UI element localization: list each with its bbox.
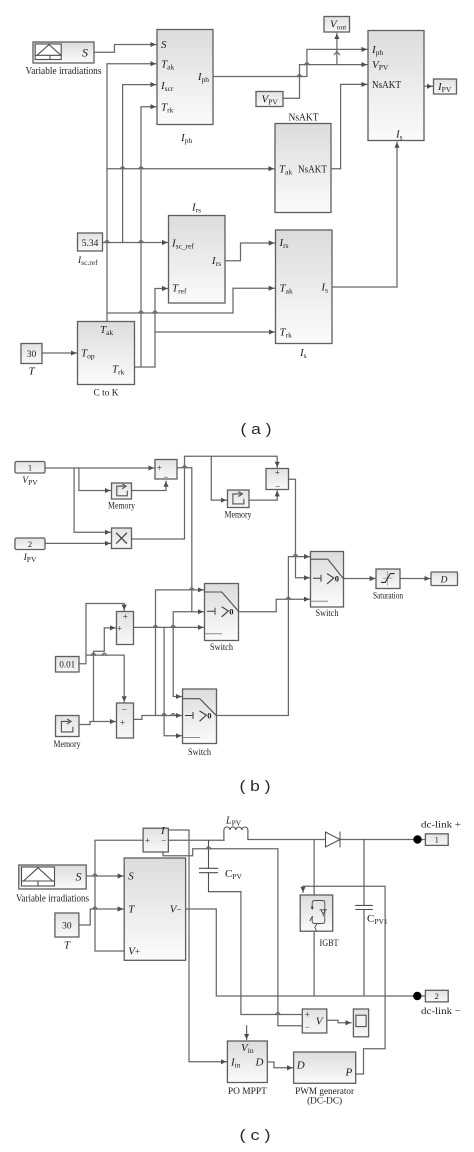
block switch1 (middle)	[205, 584, 239, 654]
wire T_ak branch to I_s block T_ak input	[107, 288, 274, 313]
wire sum2 output dP to switch3 control	[289, 479, 310, 578]
wire V- return and dc-link minus rail	[186, 909, 426, 996]
svg-text:5.34: 5.34	[82, 239, 99, 249]
block V_PV source	[256, 92, 283, 107]
wire I_ph output	[213, 49, 367, 76]
wire sum4 output to switch2 input2 and switch1 input1	[134, 588, 204, 720]
svg-text:Memory: Memory	[225, 511, 252, 521]
wire V+ to current sensor plus	[95, 840, 143, 951]
svg-text:−: −	[305, 1022, 310, 1032]
svg-text:T: T	[64, 940, 71, 952]
svg-text:1: 1	[28, 463, 32, 473]
wire switch1 output to switch3 input3	[239, 597, 310, 612]
wire branch V_PV to memory1	[79, 468, 111, 491]
svg-text:PWM generator: PWM generator	[295, 1087, 355, 1097]
block NsAKT subsystem	[275, 112, 331, 213]
wire 30 constant to T input	[79, 907, 123, 925]
capacitor C_PV	[200, 840, 243, 891]
svg-text:30: 30	[62, 922, 72, 932]
svg-text:C to K: C to K	[94, 389, 119, 399]
svg-text:S: S	[161, 39, 167, 51]
wire dc-link plus rail with L_PV	[168, 839, 425, 842]
svg-text:T: T	[128, 904, 135, 916]
svg-text:D: D	[296, 1060, 305, 1072]
wire IGBT collector to rail	[313, 840, 315, 896]
svg-text:PO MPPT: PO MPPT	[228, 1087, 267, 1097]
svg-text:Iph: Iph	[180, 132, 192, 145]
block PV array subsystem	[124, 858, 185, 960]
block current sensor sum I	[143, 825, 168, 852]
wire from inport 2 I_PV to multiply	[45, 542, 110, 544]
svg-text:Variable irradiations: Variable irradiations	[16, 894, 89, 905]
capacitor C_PV1	[356, 840, 388, 997]
block sum1	[155, 460, 177, 483]
svg-text:dc-link −: dc-link −	[421, 1007, 461, 1017]
wire 30 constant to T_op	[42, 352, 77, 354]
wire 0.01 to sum3 top and sum4 top	[79, 604, 124, 702]
svg-text:NsAKT: NsAKT	[298, 164, 327, 176]
block V_out display	[324, 17, 350, 33]
svg-text:0: 0	[229, 606, 233, 616]
svg-text:2: 2	[435, 991, 439, 1001]
svg-text:D: D	[440, 576, 448, 586]
inductor L_PV	[224, 816, 248, 841]
svg-text:+: +	[135, 947, 140, 957]
svg-text:−: −	[122, 705, 127, 715]
svg-text:−: −	[275, 481, 280, 491]
block PWM generator	[294, 1052, 356, 1107]
wire branch V_PV to multiply	[74, 468, 110, 532]
wire PO MPPT D output to PWM generator	[267, 1062, 292, 1068]
wire IGBT emitter to dc-link minus rail	[313, 931, 315, 996]
wire I_sc_ref from 5.34 constant to I_rs block	[103, 241, 168, 243]
node dot dc-link minus	[413, 992, 421, 1000]
svg-text:S: S	[82, 46, 88, 60]
svg-text:( b ): ( b )	[240, 778, 271, 795]
svg-text:Is: Is	[299, 347, 307, 360]
wire T_rk riser to I_ph T_rk input	[141, 107, 156, 367]
block C to K converter	[78, 322, 135, 399]
wire current sensor minus sense line to V-meter minus and V_in	[163, 847, 302, 1040]
wire multiply output P to sum2 top and memory2	[131, 456, 277, 539]
outport 2 dc-link minus	[421, 990, 461, 1017]
svg-text:P: P	[344, 1067, 352, 1079]
svg-text:IGBT: IGBT	[320, 939, 339, 949]
block switch3 (right)	[311, 552, 344, 620]
block Variable irradiations (c)	[16, 865, 89, 905]
svg-text:LPV: LPV	[225, 816, 242, 828]
wire PWM P output to IGBT gate	[303, 886, 385, 1074]
svg-text:D: D	[255, 1057, 264, 1069]
svg-text:0: 0	[335, 573, 339, 583]
wire T_ak branch to NsAKT block	[107, 167, 274, 169]
block IGBT	[300, 895, 338, 949]
svg-text:Variable irradiations: Variable irradiations	[26, 66, 102, 77]
wire riser to V_out	[334, 34, 339, 65]
block sum3	[117, 611, 134, 644]
wire S from Variable irradiations to PV block	[86, 874, 123, 876]
block I_ph subsystem	[157, 30, 213, 146]
block constant 5.34	[77, 233, 103, 267]
wire memory3 output to sum4 and sum3	[79, 628, 116, 725]
svg-text:Switch: Switch	[188, 748, 211, 758]
wire NsAKT output	[331, 84, 367, 168]
block constant 30 (c)	[55, 913, 79, 952]
block memory2	[225, 490, 252, 521]
svg-text:Switch: Switch	[316, 609, 339, 619]
svg-text:(DC-DC): (DC-DC)	[307, 1096, 342, 1107]
block V-meter sum	[302, 1009, 327, 1033]
svg-text:VPV: VPV	[22, 476, 38, 487]
block switch2 (bottom)	[183, 689, 217, 758]
block multiply	[112, 528, 132, 549]
svg-text:V−: V−	[170, 904, 182, 916]
wire sum3 output to switch1 input3 and switch2 input3	[134, 625, 204, 735]
wire current sensor I output to I_in	[168, 830, 226, 1062]
svg-text:0.01: 0.01	[59, 660, 75, 670]
svg-text:+: +	[120, 718, 125, 728]
svg-text:( a ): ( a )	[241, 421, 272, 438]
svg-text:Switch: Switch	[210, 643, 233, 653]
svg-text:+: +	[275, 467, 280, 477]
wire from inport 1 V_PV to sum1	[45, 467, 154, 469]
block I_s subsystem	[276, 230, 333, 360]
block outport D	[431, 572, 458, 586]
svg-text:S: S	[128, 871, 134, 883]
block memory3	[54, 716, 81, 751]
wire switch2 output to switch3 input1	[217, 554, 310, 715]
block inport 1	[15, 462, 45, 488]
svg-text:NsAKT: NsAKT	[289, 112, 319, 124]
svg-text:+: +	[117, 623, 122, 633]
block memory1	[108, 483, 135, 512]
node dot dc-link plus	[413, 835, 421, 843]
svg-text:−: −	[163, 472, 168, 482]
svg-text:Memory: Memory	[54, 740, 81, 750]
svg-text:+: +	[157, 463, 162, 473]
wire I_PV output	[424, 85, 433, 87]
block I_rs subsystem	[169, 202, 226, 304]
svg-text:NsAKT: NsAKT	[372, 79, 401, 91]
block PV current subsystem (right)	[368, 31, 424, 142]
svg-text:Memory: Memory	[108, 502, 135, 512]
wire T_rk from C to K output	[135, 366, 156, 368]
wire I_s output to PV-current block bottom	[332, 142, 397, 287]
svg-text:IPV: IPV	[23, 553, 37, 564]
svg-text:dc-link +: dc-link +	[421, 820, 461, 830]
wire memory2 output to sum2 bottom	[249, 491, 277, 500]
wire switch3 output to saturation	[344, 578, 376, 580]
wire V_PV output	[283, 63, 367, 99]
svg-text:Isc.ref: Isc.ref	[77, 256, 98, 267]
svg-text:+: +	[305, 1010, 310, 1020]
svg-text:1: 1	[435, 835, 439, 845]
svg-text:+: +	[123, 611, 128, 621]
outport 1 dc-link plus	[421, 820, 461, 845]
svg-text:2: 2	[28, 539, 32, 549]
wire V-meter output to display	[327, 1020, 351, 1023]
svg-text:0: 0	[207, 711, 211, 721]
block constant 0.01	[56, 657, 80, 673]
diode	[326, 832, 341, 847]
wire memory1 output to sum1 minus	[131, 481, 166, 490]
wire I_scr branch up to I_ph block	[123, 85, 156, 243]
block Variable irradiations (signal source)	[26, 42, 102, 77]
svg-text:S: S	[76, 870, 82, 884]
block sum2	[266, 467, 289, 491]
block I_PV display	[434, 79, 457, 94]
block constant 30	[21, 344, 42, 378]
svg-text:30: 30	[27, 350, 37, 360]
svg-text:T: T	[28, 366, 35, 378]
block sum4	[117, 703, 134, 738]
wire T_ak trunk from C to K top to I_ph T_ak input	[107, 64, 156, 322]
svg-text:Saturation: Saturation	[373, 592, 403, 602]
block saturation	[373, 569, 403, 602]
svg-text:Irs: Irs	[191, 202, 201, 215]
svg-text:CPV: CPV	[225, 868, 243, 881]
block inport 2	[15, 538, 45, 564]
block display scope	[353, 1009, 368, 1037]
wire I_rs output to I_s block	[225, 243, 274, 261]
svg-text:( c ): ( c )	[240, 1127, 271, 1144]
wire T_rk riser to T_ref and I_s T_rk	[155, 289, 275, 368]
wire C_PV node down to V-meter plus	[241, 892, 302, 1015]
block PO MPPT	[227, 1041, 267, 1097]
wire sum1 output dV down to switches	[173, 466, 203, 697]
wire S from Variable irradiations to I_ph block	[94, 45, 156, 53]
svg-text:+: +	[145, 836, 150, 846]
wire saturation output to outport D	[400, 578, 430, 580]
